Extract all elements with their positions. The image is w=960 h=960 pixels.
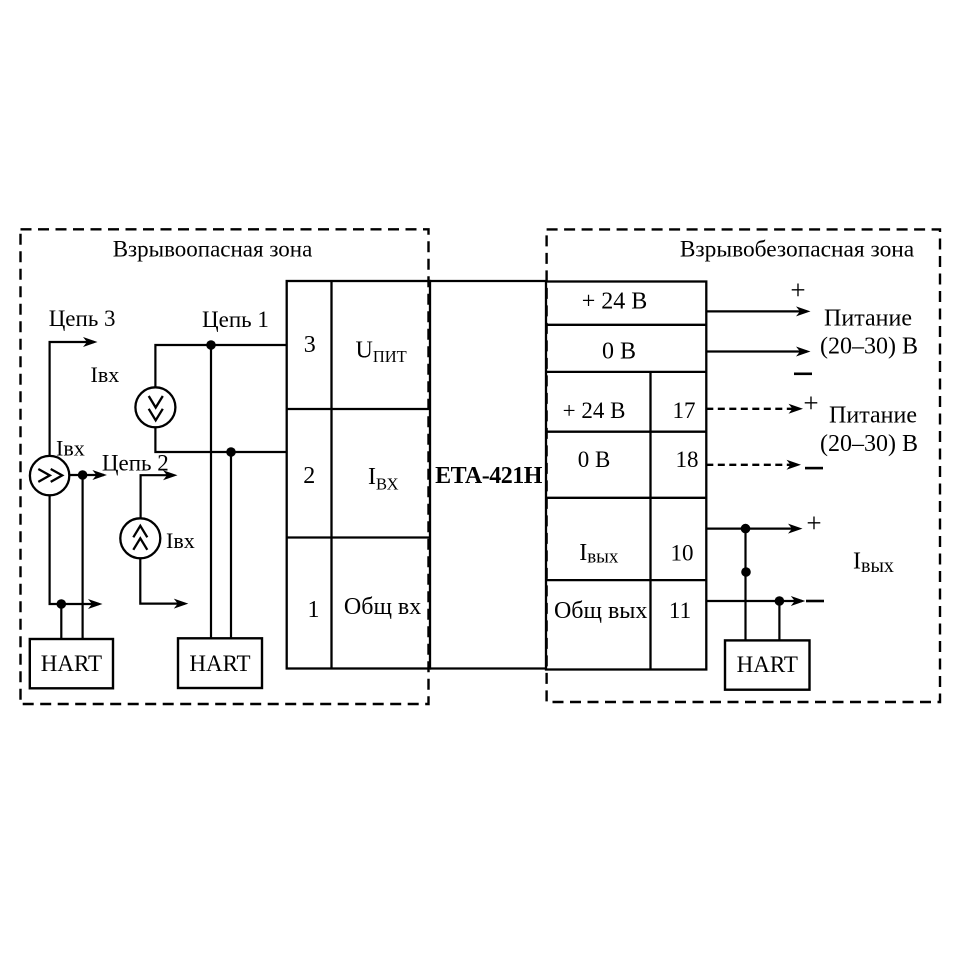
svg-text:Общ вых: Общ вых xyxy=(554,598,647,624)
+24V supply wire xyxy=(706,310,807,312)
device right terminal table xyxy=(546,282,706,670)
svg-text:17: 17 xyxy=(673,398,696,423)
device left terminal table xyxy=(287,281,430,669)
svg-text:Цепь 1: Цепь 1 xyxy=(202,307,269,332)
svg-text:HART: HART xyxy=(189,651,250,676)
svg-text:+: + xyxy=(806,508,821,538)
minus sign xyxy=(794,373,812,376)
svg-text:3: 3 xyxy=(304,332,316,358)
current source G3 (chevrons right) xyxy=(30,456,69,495)
current source G2 (chevrons up) xyxy=(120,518,160,558)
G3 bottom wire with arrow xyxy=(50,495,99,604)
svg-text:Iвх: Iвх xyxy=(91,362,120,387)
svg-text:+ 24 В: + 24 В xyxy=(563,398,626,423)
junction dot xyxy=(78,470,88,480)
G3 right wire with arrow xyxy=(69,474,104,476)
wire dot to HART2 xyxy=(230,452,232,638)
svg-text:2: 2 xyxy=(303,463,315,489)
junction dot xyxy=(741,524,751,534)
svg-text:+: + xyxy=(790,275,805,305)
svg-text:Цепь 2: Цепь 2 xyxy=(102,451,169,476)
pin17 dashed wire xyxy=(706,408,794,410)
svg-text:18: 18 xyxy=(676,447,699,472)
svg-text:1: 1 xyxy=(308,597,320,623)
mid dot on vertical wire xyxy=(741,567,751,577)
0V supply wire xyxy=(706,350,807,352)
wire dot to HART1 xyxy=(60,604,62,639)
svg-text:Питание: Питание xyxy=(824,306,912,332)
svg-text:0 В: 0 В xyxy=(602,339,636,365)
svg-text:Питание: Питание xyxy=(829,403,917,429)
current source G1 (chevrons down) xyxy=(135,387,175,427)
circuit 2 arrow wire xyxy=(141,475,174,518)
junction dot xyxy=(226,447,236,457)
svg-text:Цепь 3: Цепь 3 xyxy=(49,306,116,331)
svg-text:Взрывоопасная зона: Взрывоопасная зона xyxy=(113,237,313,262)
svg-text:10: 10 xyxy=(671,541,694,566)
circuit 3 arrow wire xyxy=(50,342,94,456)
G1 bottom wire to pin 2 xyxy=(155,427,286,452)
HART box 2 xyxy=(178,638,262,688)
wire dot to HART1 xyxy=(81,475,83,639)
middle bottom connector line xyxy=(430,667,546,669)
svg-text:+ 24 В: + 24 В xyxy=(582,289,648,315)
wire to HART3 xyxy=(778,601,780,640)
hazardous zone dashed border xyxy=(21,229,429,704)
svg-text:HART: HART xyxy=(737,652,798,677)
svg-text:HART: HART xyxy=(41,651,102,676)
svg-text:Взрывобезопасная зона: Взрывобезопасная зона xyxy=(680,237,915,263)
svg-text:ЕТА-421Н: ЕТА-421Н xyxy=(435,463,543,489)
minus sign xyxy=(806,600,824,603)
svg-text:+: + xyxy=(803,388,818,418)
HART box 3 xyxy=(725,640,810,689)
junction dot xyxy=(57,599,67,609)
svg-text:Iвх: Iвх xyxy=(166,528,195,553)
svg-text:11: 11 xyxy=(669,598,691,623)
svg-text:(20–30) В: (20–30) В xyxy=(820,334,918,360)
svg-text:Iвх: Iвх xyxy=(56,436,85,461)
svg-text:0 В: 0 В xyxy=(578,447,611,472)
G1 top wire to pin 3 xyxy=(155,345,286,387)
pin18 dashed wire xyxy=(706,464,792,466)
middle top connector line xyxy=(430,280,546,282)
junction dot xyxy=(775,596,785,606)
HART box 1 xyxy=(30,639,113,688)
minus sign xyxy=(805,467,823,470)
Iвых + wire xyxy=(706,527,799,529)
safe zone dashed border xyxy=(547,229,940,702)
Iвых - wire xyxy=(706,600,802,602)
junction dot xyxy=(206,340,216,350)
G2 bottom wire with arrow xyxy=(140,558,185,603)
svg-text:(20–30) В: (20–30) В xyxy=(820,431,918,457)
svg-text:Общ вх: Общ вх xyxy=(344,594,421,620)
wire to HART3 xyxy=(744,529,746,641)
wire dot to HART2 xyxy=(210,345,212,638)
